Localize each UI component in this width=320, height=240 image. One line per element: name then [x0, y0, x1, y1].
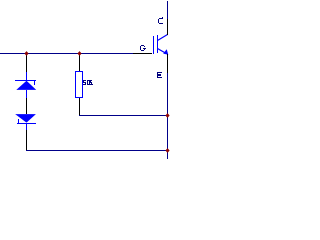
resistor R1 body	[76, 72, 83, 98]
wire: zener D1 top lead	[26, 72, 27, 80]
pin label C	[158, 17, 163, 24]
wire: gate lead black segment	[133, 53, 152, 54]
zener D1 cathode bar	[15, 80, 36, 81]
wire: middle horizontal (resistor to emitter)	[79, 115, 168, 116]
wire: left branch vertical (to zener chain)	[26, 55, 27, 72]
wire: collector lead	[167, 19, 168, 35]
zener D1 triangle	[16, 81, 36, 90]
zener D2 triangle	[15, 114, 36, 123]
wire: top horizontal rail (gate net)	[0, 53, 133, 54]
IGBT emitter diagonal	[158, 49, 165, 53]
IGBT Q1	[153, 35, 168, 55]
junction dot at bottom rail / emitter	[165, 148, 169, 153]
wire: emitter lead	[167, 54, 168, 73]
wire: bottom horizontal rail (emitter net)	[26, 150, 168, 151]
zener D2 (cathode down)	[15, 114, 36, 124]
zener D1 (cathode up)	[15, 80, 36, 90]
resistor R1 top lead	[79, 55, 80, 71]
pin label G	[140, 45, 146, 51]
resistor R1 bottom lead	[79, 98, 80, 115]
junction dot at gate rail / resistor branch	[77, 51, 81, 56]
zener D1 cathode tick	[34, 81, 35, 85]
wire: zener D2 bottom lead	[26, 124, 27, 130]
junction dot at middle wire / emitter	[165, 113, 169, 118]
zener D2 cathode bar	[17, 123, 36, 124]
IGBT emitter arrow	[163, 49, 168, 55]
zener D2 cathode tick	[18, 119, 19, 123]
resistor R1 value label "50ohm"	[83, 80, 93, 85]
wire: between zeners	[26, 90, 27, 98]
junction dot at gate rail / zener branch	[24, 51, 28, 56]
IGBT body bar	[157, 35, 158, 53]
IGBT collector diagonal	[158, 35, 168, 41]
pin label E	[157, 72, 162, 78]
IGBT gate bar	[153, 36, 154, 54]
